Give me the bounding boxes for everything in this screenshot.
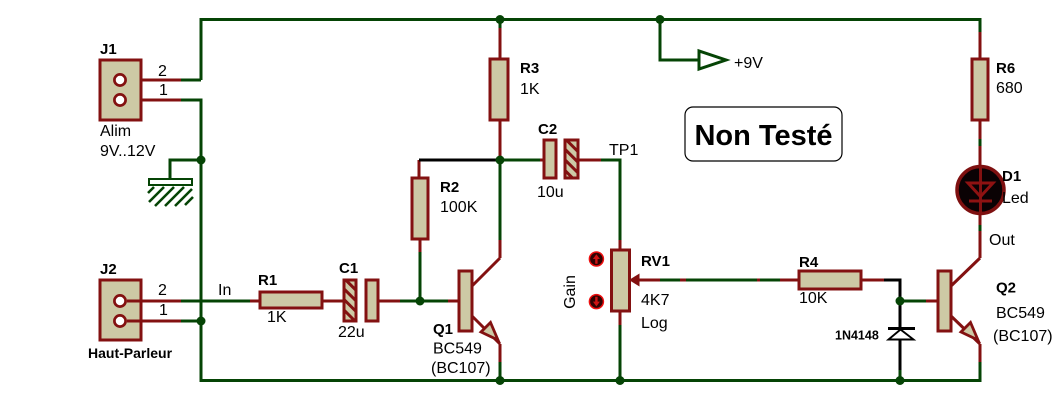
transistor Q1 bbox=[431, 240, 500, 377]
wire C2 to TP1 corner bbox=[578, 160, 620, 250]
wire Q2 collector up bbox=[979, 215, 982, 258]
svg-text:R4: R4 bbox=[799, 254, 819, 271]
wire J2 pin2 In bbox=[127, 300, 260, 303]
connector J1 bbox=[100, 41, 168, 160]
potentiometer RV1 bbox=[612, 250, 670, 332]
svg-text:BC549: BC549 bbox=[996, 305, 1045, 322]
wire wiper to R4 bbox=[660, 279, 799, 282]
svg-text:In: In bbox=[218, 282, 231, 299]
wire Q2 emitter down bbox=[979, 344, 982, 362]
wire ground stub bbox=[170, 160, 202, 179]
power symbol +9V arrow bbox=[699, 51, 763, 72]
svg-text:680: 680 bbox=[996, 80, 1023, 97]
capacitor C1 bbox=[338, 260, 378, 341]
svg-text:100K: 100K bbox=[440, 199, 478, 216]
svg-text:9V..12V: 9V..12V bbox=[100, 143, 156, 160]
svg-text:J1: J1 bbox=[100, 41, 117, 58]
svg-text:R2: R2 bbox=[440, 179, 459, 196]
resistor R3 bbox=[490, 59, 540, 120]
node junction dots bbox=[197, 15, 905, 385]
pot down button bbox=[589, 295, 603, 309]
svg-text:Led: Led bbox=[1002, 190, 1029, 207]
wire RV1 bottom bbox=[619, 311, 622, 380]
connector J2 bbox=[88, 261, 173, 361]
wire top power rail bbox=[201, 20, 980, 81]
svg-text:Alim: Alim bbox=[100, 123, 131, 140]
resistor R4 bbox=[799, 254, 861, 307]
svg-text:RV1: RV1 bbox=[641, 253, 670, 270]
svg-text:D1: D1 bbox=[1002, 168, 1021, 185]
svg-text:Q1: Q1 bbox=[433, 321, 453, 338]
svg-text:TP1: TP1 bbox=[609, 142, 638, 159]
note Non Testé bbox=[685, 107, 842, 161]
wire J1 pin2 to rail bbox=[127, 79, 201, 82]
wire R6 leads bbox=[979, 32, 982, 166]
ground bbox=[148, 179, 193, 206]
svg-text:Out: Out bbox=[989, 232, 1015, 249]
svg-text:1K: 1K bbox=[520, 81, 540, 98]
wire R2 branch vertical bbox=[419, 160, 420, 301]
svg-text:C2: C2 bbox=[538, 121, 557, 138]
transistor Q2 bbox=[938, 258, 1053, 345]
resistor R1 bbox=[258, 272, 322, 326]
wire Q1 emitter down bbox=[499, 344, 502, 380]
svg-text:C1: C1 bbox=[339, 260, 358, 277]
svg-text:1: 1 bbox=[159, 82, 168, 99]
svg-text:R6: R6 bbox=[996, 60, 1015, 77]
wire diode vertical bbox=[899, 303, 902, 380]
svg-text:4K7: 4K7 bbox=[641, 292, 670, 309]
pot up button bbox=[589, 252, 603, 266]
wire black feedback bbox=[419, 159, 500, 162]
svg-text:1N4148: 1N4148 bbox=[835, 329, 879, 343]
LED D1 bbox=[957, 166, 1029, 214]
wire +9V branch bbox=[660, 20, 698, 61]
svg-text:R3: R3 bbox=[520, 60, 539, 77]
svg-text:(BC107): (BC107) bbox=[993, 328, 1053, 345]
svg-text:22u: 22u bbox=[338, 324, 365, 341]
capacitor C2 bbox=[537, 121, 578, 201]
svg-text:10u: 10u bbox=[537, 184, 564, 201]
resistor R2 bbox=[412, 178, 478, 239]
svg-text:(BC107): (BC107) bbox=[431, 360, 491, 377]
svg-text:Haut-Parleur: Haut-Parleur bbox=[88, 345, 173, 361]
wire R1 to C1 bbox=[322, 300, 344, 303]
resistor R6 bbox=[972, 59, 1023, 120]
svg-text:+9V: +9V bbox=[734, 55, 763, 72]
wire J2 pin1 bbox=[127, 320, 201, 323]
wire J1 pin1 lead bbox=[127, 99, 181, 102]
svg-text:Log: Log bbox=[641, 315, 668, 332]
svg-text:BC549: BC549 bbox=[433, 341, 482, 358]
svg-text:1: 1 bbox=[159, 302, 168, 319]
wire R4 to node bbox=[861, 280, 900, 303]
svg-text:1K: 1K bbox=[267, 309, 287, 326]
svg-text:Gain: Gain bbox=[562, 275, 579, 309]
svg-text:J2: J2 bbox=[100, 261, 117, 278]
svg-text:Q2: Q2 bbox=[996, 280, 1016, 297]
svg-text:2: 2 bbox=[158, 63, 167, 80]
wire C1 to node bbox=[378, 300, 459, 303]
svg-text:2: 2 bbox=[158, 282, 167, 299]
svg-text:10K: 10K bbox=[799, 290, 828, 307]
diode 1N4148 bbox=[835, 329, 915, 343]
svg-text:Non Testé: Non Testé bbox=[694, 120, 832, 152]
wire ground net left vertical and bottom rail bbox=[181, 100, 980, 381]
svg-text:R1: R1 bbox=[258, 272, 277, 289]
wire Q2 base bbox=[903, 300, 938, 303]
wire collector net vertical bbox=[500, 160, 544, 240]
wire R3 leads bbox=[499, 20, 502, 162]
